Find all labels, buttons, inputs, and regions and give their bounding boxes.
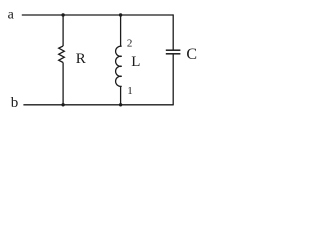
svg-text:1: 1 [127, 85, 133, 97]
svg-text:2: 2 [127, 38, 132, 50]
svg-text:b: b [11, 95, 18, 111]
resistor R1 zigzag [59, 46, 65, 63]
wire right vertical lower (from capacitor bottom plate) [172, 54, 174, 106]
svg-text:R: R [76, 51, 86, 67]
inductor L1 coil (4 loops) [116, 46, 122, 86]
junction dot top inductor branch [119, 13, 122, 16]
wire bottom horizontal b to bottom-right corner [23, 104, 173, 106]
wire right vertical upper (to capacitor top plate) [172, 14, 174, 50]
capacitor C1 bottom plate [166, 53, 181, 55]
junction dot bottom resistor branch [61, 103, 64, 106]
svg-text:L: L [131, 54, 140, 70]
svg-text:C: C [186, 46, 197, 63]
capacitor C1 top plate [166, 49, 181, 51]
svg-text:a: a [8, 8, 15, 23]
junction dot top resistor branch [61, 13, 64, 16]
wire inductor branch lower [120, 86, 122, 105]
wire top horizontal a to top-right corner [22, 14, 173, 16]
junction dot bottom inductor branch [119, 103, 122, 106]
wire inductor branch upper [120, 15, 122, 46]
wire resistor branch upper [62, 15, 64, 46]
wire resistor branch lower [62, 63, 64, 105]
